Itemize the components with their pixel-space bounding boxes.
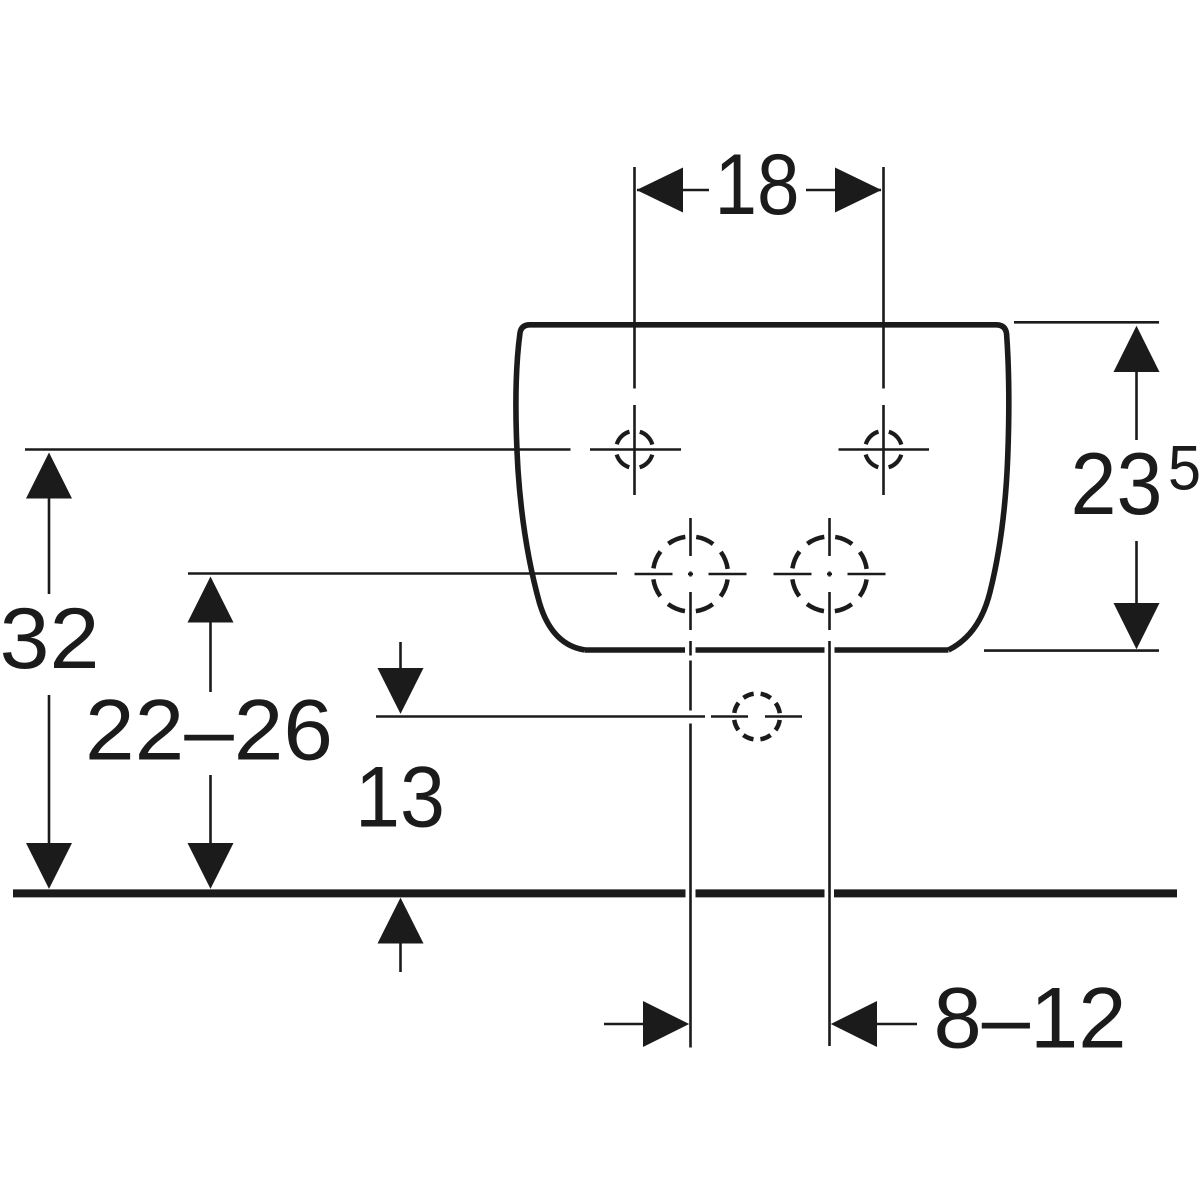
dim 32: down arrow: [26, 843, 72, 889]
dim 18: left extension line: [633, 167, 636, 389]
svg-text:22–26: 22–26: [85, 683, 333, 779]
lower-left hole (dashed circle): [653, 537, 728, 612]
dim 22-26: dimension line: [209, 620, 212, 845]
dim 8-12: right tail: [874, 1023, 917, 1026]
svg-text:5: 5: [1168, 434, 1200, 504]
right drop line from lower-right hole to below floor: [828, 641, 831, 1046]
dim 23.5: bottom extension line: [984, 649, 1159, 652]
left drop line from lower-left hole to below floor: [689, 641, 692, 1048]
floor line: [13, 889, 1177, 897]
dim 13: upper arrow tail: [399, 642, 402, 670]
dim 22-26: down arrow: [188, 843, 234, 889]
svg-text:32: 32: [0, 591, 99, 687]
dim 8-12: left tail: [604, 1023, 646, 1026]
dim 13: up arrow below floor: [378, 898, 424, 944]
dim 13: lower arrow tail: [399, 942, 402, 972]
svg-text:18: 18: [715, 137, 800, 233]
dim 18: left arrow: [637, 168, 684, 213]
body bottom edge (with breaks at drop lines): [585, 647, 949, 653]
upper-right fixing hole (dashed circle): [865, 431, 902, 468]
dim 32: extension line: [25, 448, 571, 451]
svg-text:8–12: 8–12: [934, 971, 1127, 1067]
dim 13: down arrow onto landing line: [378, 668, 424, 714]
dim 22-26: extension line: [188, 572, 617, 575]
dim 22-26: up arrow: [188, 577, 234, 623]
upper-left hole crosshair: [590, 405, 681, 495]
body outline (sides and top): [516, 325, 1009, 650]
svg-text:13: 13: [355, 750, 445, 846]
lower-left hole crosshair: [635, 518, 747, 630]
lower-right hole crosshair: [774, 518, 886, 630]
dim 23.5: down arrow: [1114, 603, 1160, 649]
dim 18: right extension line: [882, 167, 885, 389]
dim 13: landing extension line: [376, 715, 705, 718]
dim 18: right arrow: [835, 168, 882, 213]
dim 23.5: dimension line: [1135, 370, 1138, 608]
svg-text:23: 23: [1071, 434, 1163, 533]
outlet hole crosshair (horizontal only): [711, 715, 802, 718]
dim 32: dimension line: [48, 497, 51, 845]
upper-left fixing hole (dashed circle): [616, 431, 653, 468]
dim 32: up arrow: [26, 453, 72, 499]
lower-right hole (dashed circle): [792, 537, 867, 612]
dim 23.5: up arrow: [1114, 326, 1160, 372]
dim 8-12: left-pointing arrow: [831, 1001, 877, 1047]
dim 23.5: top extension line: [1014, 321, 1159, 324]
dim 8-12: right-pointing arrow: [643, 1001, 689, 1047]
dim 18: dimension line: [637, 189, 881, 192]
outlet hole below body (dashed circle): [734, 694, 780, 740]
upper-right hole crosshair: [839, 405, 930, 495]
